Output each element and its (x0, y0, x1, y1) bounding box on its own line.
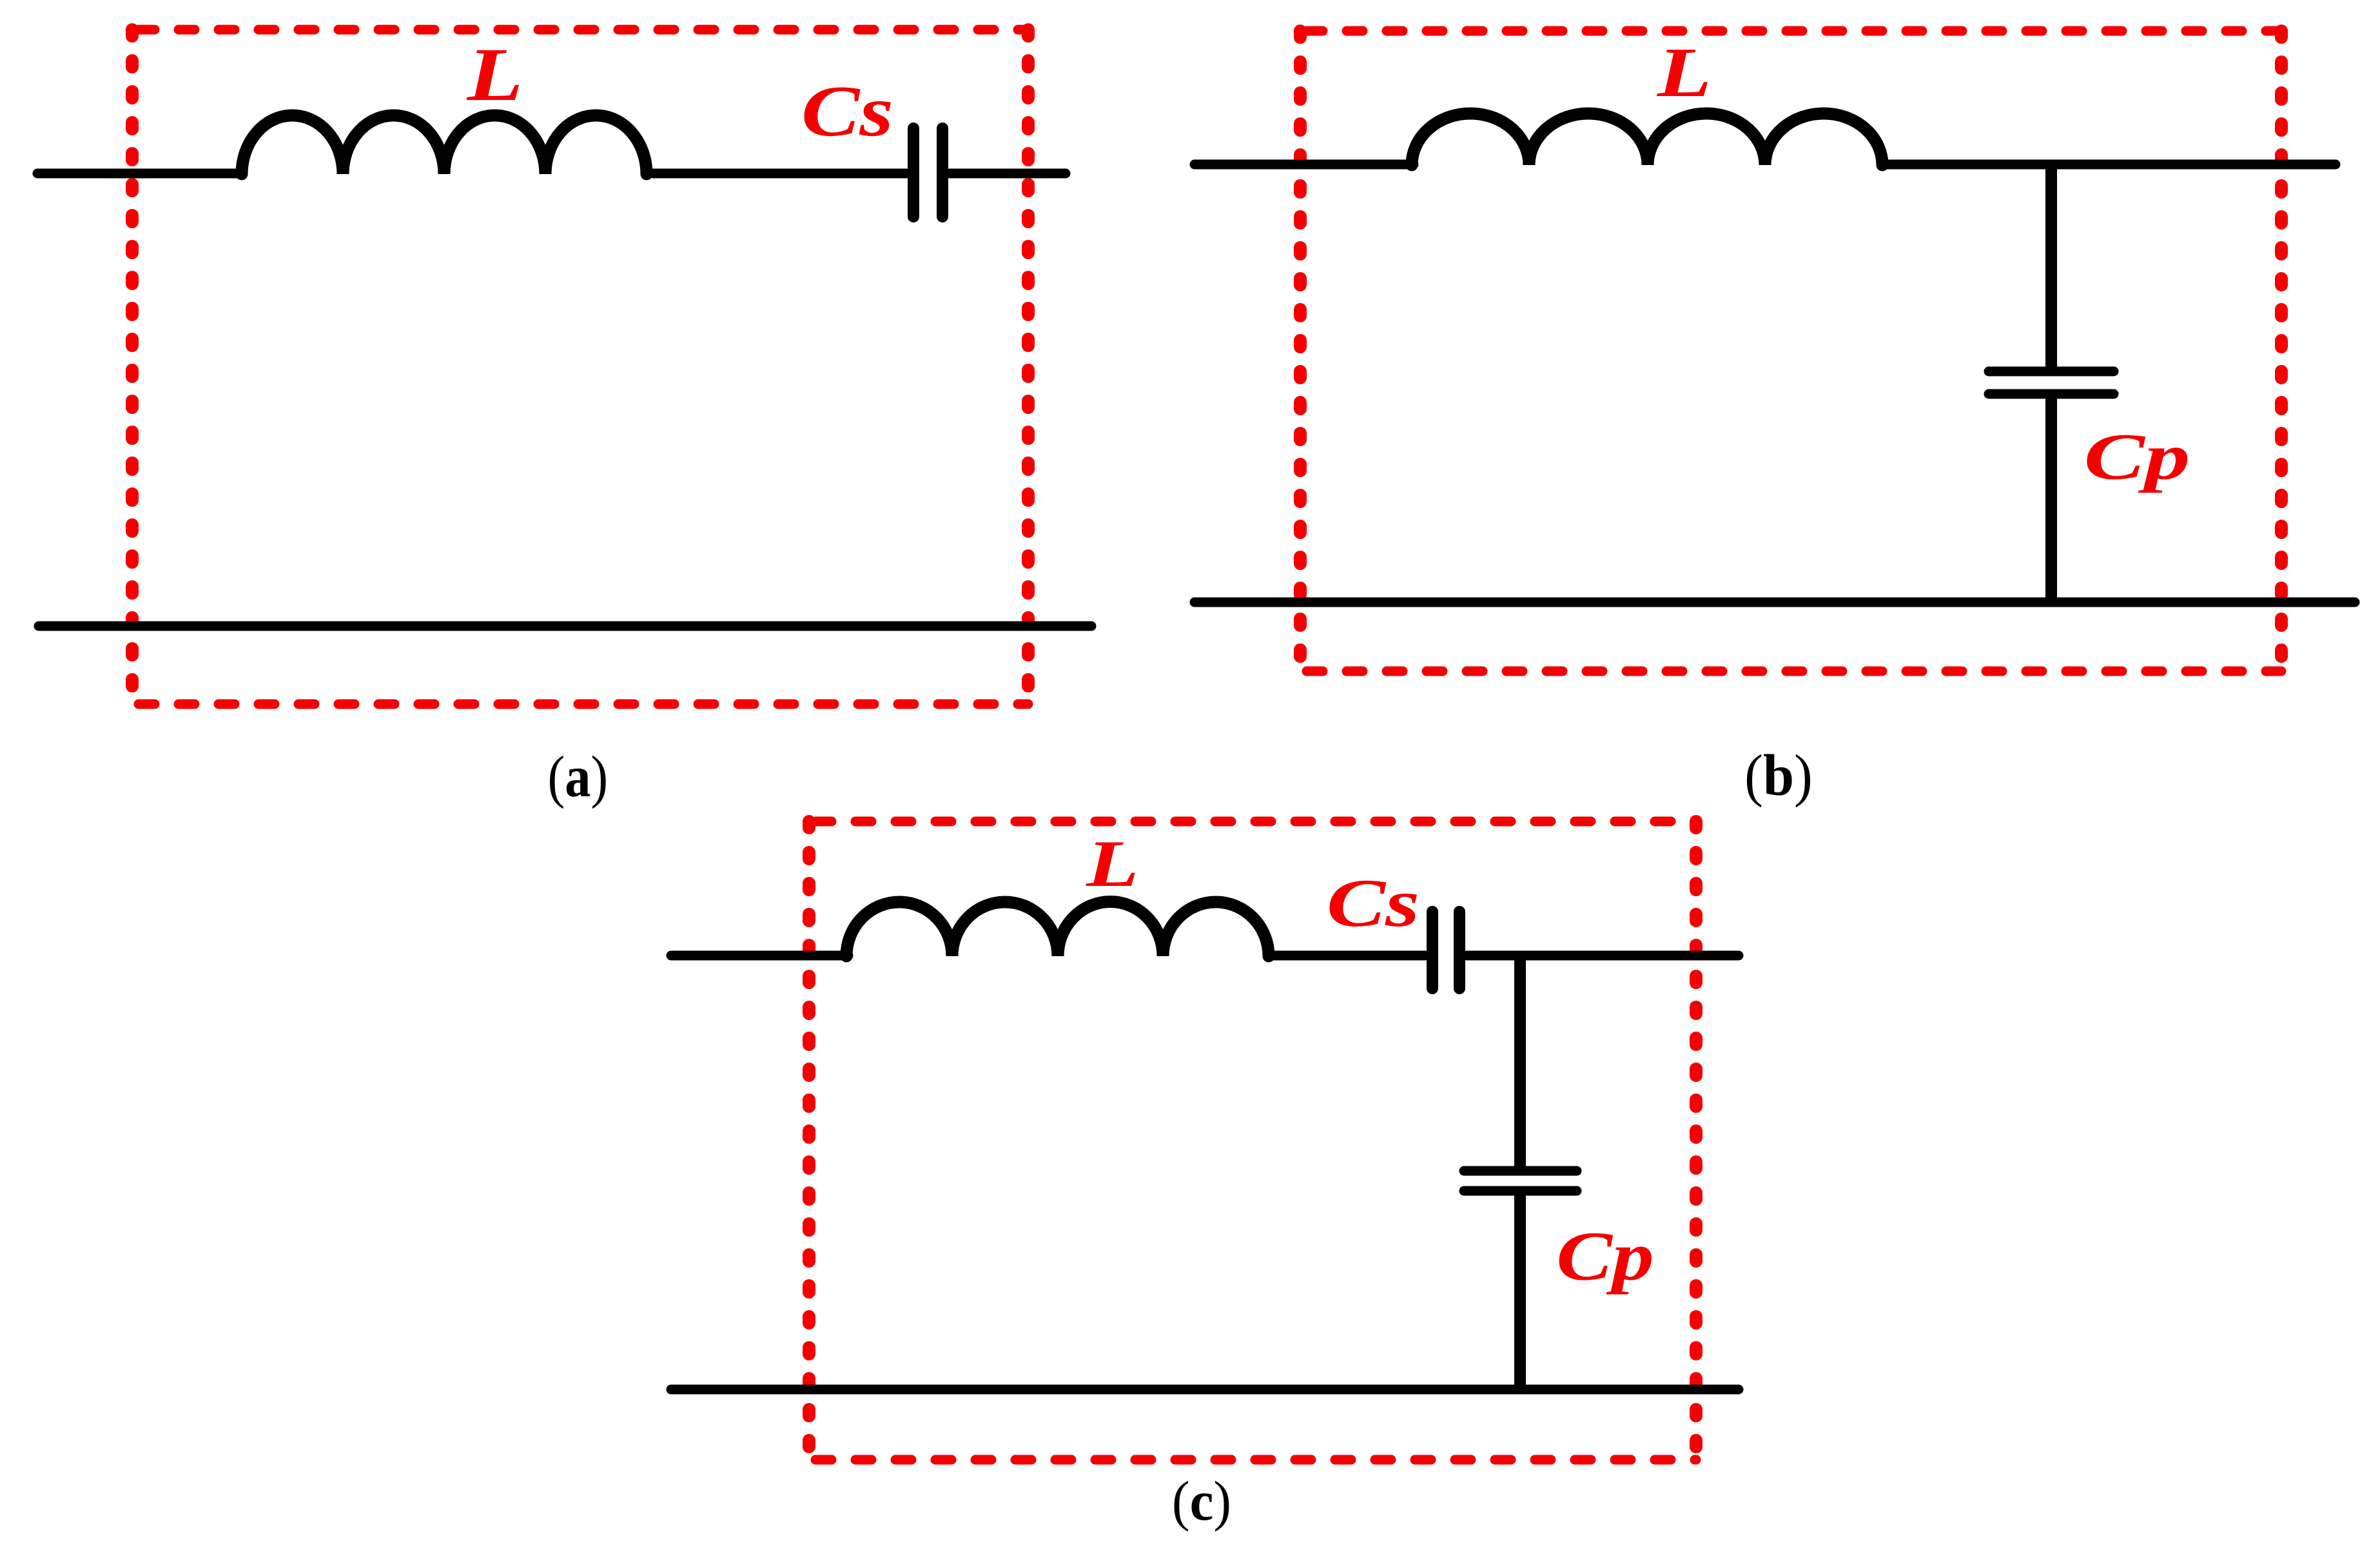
wire: (c) top-right output segment (1467, 951, 1739, 961)
label Cs (c) (1327, 865, 1419, 941)
dashed box (a) right side (1022, 30, 1035, 704)
svg-text:Cp: Cp (1556, 1217, 1654, 1295)
dashed box (b) right side (2275, 31, 2288, 671)
svg-text:L: L (1086, 827, 1138, 900)
inductor L (a) (242, 115, 647, 174)
inductor L (b) (1412, 113, 1882, 165)
wire: (a) between inductor and Cs (653, 169, 906, 179)
label L (b) (1657, 33, 1712, 112)
svg-text:(b): (b) (1744, 743, 1813, 808)
wire: (c) top-left input segment (671, 951, 848, 961)
capacitor Cs (c) right plate (1454, 912, 1465, 988)
wire: (c) shunt branch lower (1514, 1195, 1526, 1389)
wire: (b) shunt branch lower (2045, 398, 2057, 602)
wire: (a) top-left input segment (37, 169, 237, 179)
capacitor Cs (a) right plate (937, 128, 948, 217)
wire: (a) top-right output segment (950, 169, 1066, 179)
wire: (b) top-right segment (1882, 160, 2336, 170)
svg-text:Cs: Cs (801, 71, 893, 152)
wire: (c) bottom rail (671, 1385, 1739, 1395)
wire: (c) between inductor and Cs (1269, 951, 1425, 961)
svg-text:L: L (1657, 33, 1712, 112)
dashed box (b) left side (1294, 31, 1307, 671)
label (b) (1744, 743, 1813, 808)
dashed box (c) right side (1690, 821, 1702, 1460)
svg-text:(c): (c) (1172, 1470, 1231, 1532)
capacitor Cp (c) bottom plate (1464, 1186, 1577, 1196)
wire: (b) top-left input segment (1195, 160, 1414, 170)
label L (c) (1086, 827, 1138, 900)
capacitor Cs (c) left plate (1427, 912, 1438, 988)
wire: (b) bottom rail (1195, 598, 2355, 607)
wire: (b) shunt branch upper (2045, 164, 2057, 367)
svg-text:Cp: Cp (2084, 420, 2190, 493)
wire: (c) shunt branch upper (1514, 956, 1526, 1166)
dashed box (a) top side (139, 25, 1028, 35)
dashed box (b) top side (1307, 26, 2281, 36)
dashed box (c) bottom side (815, 1455, 1696, 1465)
svg-text:L: L (467, 33, 523, 117)
capacitor Cs (a) left plate (908, 128, 919, 217)
svg-text:(a): (a) (547, 745, 608, 810)
label Cs (a) (801, 71, 893, 152)
svg-text:Cs: Cs (1327, 865, 1419, 941)
capacitor Cp (b) top plate (1989, 367, 2114, 377)
inductor L (c) (846, 901, 1269, 956)
dashed box (c) top side (815, 817, 1696, 827)
dashed box (c) left side (803, 821, 815, 1460)
label Cp (b) (2084, 420, 2190, 493)
dashed box (a) left side (126, 30, 139, 704)
label L (a) (467, 33, 523, 117)
label (c) (1172, 1470, 1231, 1532)
dashed box (a) bottom side (139, 700, 1028, 709)
capacitor Cp (c) top plate (1464, 1166, 1577, 1176)
label Cp (c) (1556, 1217, 1654, 1295)
label (a) (547, 745, 608, 810)
wire: (a) bottom rail (39, 622, 1091, 631)
dashed box (b) bottom side (1307, 667, 2281, 676)
capacitor Cp (b) bottom plate (1989, 389, 2114, 399)
